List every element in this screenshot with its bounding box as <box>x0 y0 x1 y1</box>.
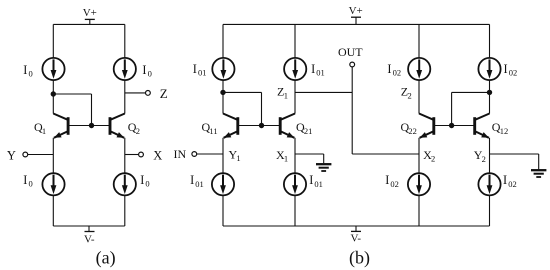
wire column3 top <box>418 24 420 58</box>
label Q12 <box>492 120 508 136</box>
svg-text:2: 2 <box>482 154 486 164</box>
wire node A to Q1 collector <box>52 94 54 114</box>
svg-text:I: I <box>142 63 146 77</box>
current source I01 top-left <box>212 58 234 80</box>
svg-text:1: 1 <box>284 154 288 164</box>
wire column1 node <box>222 80 224 114</box>
wire X1 to ground <box>295 154 324 163</box>
svg-text:2: 2 <box>136 126 140 136</box>
label I01 top-left <box>193 62 207 78</box>
current source I0 top-right <box>114 58 136 80</box>
label (a) <box>96 248 116 269</box>
label I01 bottom-left <box>190 173 204 189</box>
svg-text:OUT: OUT <box>338 45 363 59</box>
wire Q21 emitter column <box>294 138 296 173</box>
label I01 bottom-mid <box>309 173 323 189</box>
junction dot base rail left (b) <box>259 123 264 128</box>
svg-text:0: 0 <box>29 179 33 189</box>
svg-text:I: I <box>504 62 508 76</box>
svg-text:01: 01 <box>195 179 204 189</box>
wire base drop (a) <box>91 94 93 126</box>
wire column2 bottom <box>294 195 296 226</box>
current source I02 top-mid <box>408 58 430 80</box>
wire top rail (b) <box>223 23 490 25</box>
svg-text:I: I <box>190 173 194 187</box>
wire bottom rail (b) <box>223 225 490 227</box>
current source I0 top-left <box>42 58 64 80</box>
svg-text:Z: Z <box>160 86 168 101</box>
current source I02 top-right <box>478 58 500 80</box>
wire IN to Y1 <box>197 153 223 155</box>
node Z terminal <box>146 91 151 96</box>
transistor Q2 <box>110 114 125 138</box>
junction dot column1 node <box>220 90 225 95</box>
svg-text:I: I <box>503 173 507 187</box>
wire node A to base drop <box>53 93 91 95</box>
svg-text:12: 12 <box>500 126 509 136</box>
svg-text:V+: V+ <box>83 7 97 19</box>
wire Z1 to OUT column <box>295 91 352 93</box>
label Q11 <box>202 120 218 136</box>
wire bottom rail (a) <box>53 225 125 227</box>
svg-text:11: 11 <box>209 126 217 136</box>
wire column1 top <box>222 24 224 58</box>
wire node to drop right <box>452 91 490 93</box>
wire column2 top <box>294 24 296 58</box>
label I02 bottom-mid <box>385 173 399 189</box>
svg-text:02: 02 <box>508 179 517 189</box>
svg-text:0: 0 <box>29 69 33 79</box>
svg-text:I: I <box>311 62 315 76</box>
wire Y2 to ground <box>490 154 539 169</box>
power V+ (b) <box>351 17 361 24</box>
wire column4 top <box>489 24 491 58</box>
label Y2 <box>474 148 486 164</box>
power V- (b) <box>351 226 361 231</box>
label Z1 <box>277 85 288 101</box>
label IN <box>174 147 187 161</box>
wire base drop right (b) <box>451 92 453 125</box>
svg-text:02: 02 <box>393 68 402 78</box>
wire right column Z segment <box>124 80 126 114</box>
svg-text:1: 1 <box>236 153 240 163</box>
wire Y stub <box>28 154 54 156</box>
svg-text:I: I <box>140 173 144 187</box>
node OUT terminal <box>350 62 355 67</box>
svg-text:V+: V+ <box>349 5 363 17</box>
label I01 top-mid <box>311 62 325 78</box>
transistor Q1 <box>53 114 68 138</box>
wire Q2 emitter column <box>124 138 126 173</box>
wire OUT to X2 <box>352 153 419 155</box>
svg-text:I: I <box>387 62 391 76</box>
power V- (a) <box>85 226 95 232</box>
svg-text:22: 22 <box>408 126 417 136</box>
label I0 bottom-left <box>23 173 32 189</box>
node X terminal <box>139 152 144 157</box>
wire Q12 emitter column <box>489 138 491 173</box>
ground X1 <box>316 164 331 171</box>
wire column1 bottom <box>222 195 224 226</box>
svg-text:I: I <box>385 173 389 187</box>
current source I0 bottom-left <box>42 173 64 195</box>
wire base rail right (b) <box>434 125 475 127</box>
transistor Q12 <box>475 114 490 138</box>
wire column4 node <box>489 80 491 114</box>
transistor Q22 <box>419 114 434 138</box>
wire OUT column <box>351 67 353 154</box>
wire column2 Z1 segment <box>294 80 296 114</box>
svg-text:2: 2 <box>431 154 435 164</box>
label (b) <box>349 247 370 268</box>
label X <box>153 149 162 163</box>
label V- (b) <box>350 233 361 245</box>
wire right column top (a) <box>124 24 126 58</box>
label V+ (a) <box>83 7 97 19</box>
svg-text:(a): (a) <box>96 248 116 269</box>
current source I01 top-mid <box>284 58 306 80</box>
svg-text:0: 0 <box>148 69 152 79</box>
wire base rail left (b) <box>238 125 281 127</box>
wire right column bottom (a) <box>124 195 126 226</box>
label Q22 <box>401 120 417 136</box>
label Q1 <box>34 120 46 136</box>
label Z <box>160 86 168 101</box>
wire Q22 emitter column <box>418 138 420 173</box>
svg-text:I: I <box>23 63 27 77</box>
wire Z stub <box>125 92 146 94</box>
svg-text:Y: Y <box>7 149 16 163</box>
wire X stub <box>125 154 139 156</box>
label OUT <box>338 45 363 59</box>
label I0 top-left <box>23 63 32 79</box>
transistor Q21 <box>280 114 295 138</box>
svg-text:01: 01 <box>314 179 323 189</box>
label Y1 <box>229 148 241 164</box>
wire node to drop left <box>223 91 262 93</box>
power V+ (a) <box>85 19 95 24</box>
junction dot node A <box>51 91 56 96</box>
svg-text:IN: IN <box>174 147 187 161</box>
svg-text:I: I <box>193 62 197 76</box>
label Q21 <box>296 120 312 136</box>
svg-text:I: I <box>309 173 313 187</box>
label I0 top-right <box>142 63 151 79</box>
current source I01 bottom-left <box>212 173 234 195</box>
label X1 <box>276 148 288 164</box>
wire Q1 emitter column <box>52 138 54 173</box>
wire top rail (a) <box>53 23 125 25</box>
current source I01 bottom-mid <box>284 173 306 195</box>
wire left column to node A <box>52 80 54 94</box>
wire left column top (a) <box>52 24 54 58</box>
label Z2 <box>401 85 412 101</box>
label X2 <box>423 148 435 164</box>
junction dot base rail (a) <box>89 123 94 128</box>
svg-text:X: X <box>153 149 162 163</box>
junction dot column4 node <box>487 90 492 95</box>
svg-text:1: 1 <box>284 90 288 100</box>
label I02 bottom-right <box>503 173 517 189</box>
svg-text:21: 21 <box>304 126 313 136</box>
wire base drop left (b) <box>261 92 263 125</box>
ground Y2 <box>531 170 546 177</box>
junction dot base rail right (b) <box>449 123 454 128</box>
svg-text:(b): (b) <box>349 247 370 268</box>
svg-text:I: I <box>23 173 27 187</box>
label Y <box>7 149 16 163</box>
svg-text:02: 02 <box>390 179 399 189</box>
current source I02 bottom-right <box>478 173 500 195</box>
label V+ (b) <box>349 5 363 17</box>
wire base rail (a) <box>68 125 110 127</box>
wire column4 bottom <box>489 195 491 226</box>
label Q2 <box>128 120 140 136</box>
svg-text:02: 02 <box>509 68 518 78</box>
node IN terminal <box>192 152 197 157</box>
svg-text:01: 01 <box>198 68 207 78</box>
wire left column bottom (a) <box>52 195 54 226</box>
current source I02 bottom-mid <box>408 173 430 195</box>
svg-text:V-: V- <box>84 234 95 246</box>
transistor Q11 <box>223 114 238 138</box>
label I0 bottom-right <box>140 173 149 189</box>
svg-text:0: 0 <box>145 179 149 189</box>
label I02 top-mid <box>387 62 401 78</box>
svg-text:V-: V- <box>350 233 361 245</box>
svg-text:2: 2 <box>408 90 412 100</box>
svg-text:1: 1 <box>42 126 46 136</box>
wire Q11 emitter column <box>222 138 224 173</box>
wire column3 Z2 segment <box>418 80 420 114</box>
label V- (a) <box>84 234 95 246</box>
node Y terminal <box>23 152 28 157</box>
wire column3 bottom <box>418 195 420 226</box>
current source I0 bottom-right <box>114 173 136 195</box>
svg-text:01: 01 <box>316 68 325 78</box>
label I02 top-right <box>504 62 518 78</box>
